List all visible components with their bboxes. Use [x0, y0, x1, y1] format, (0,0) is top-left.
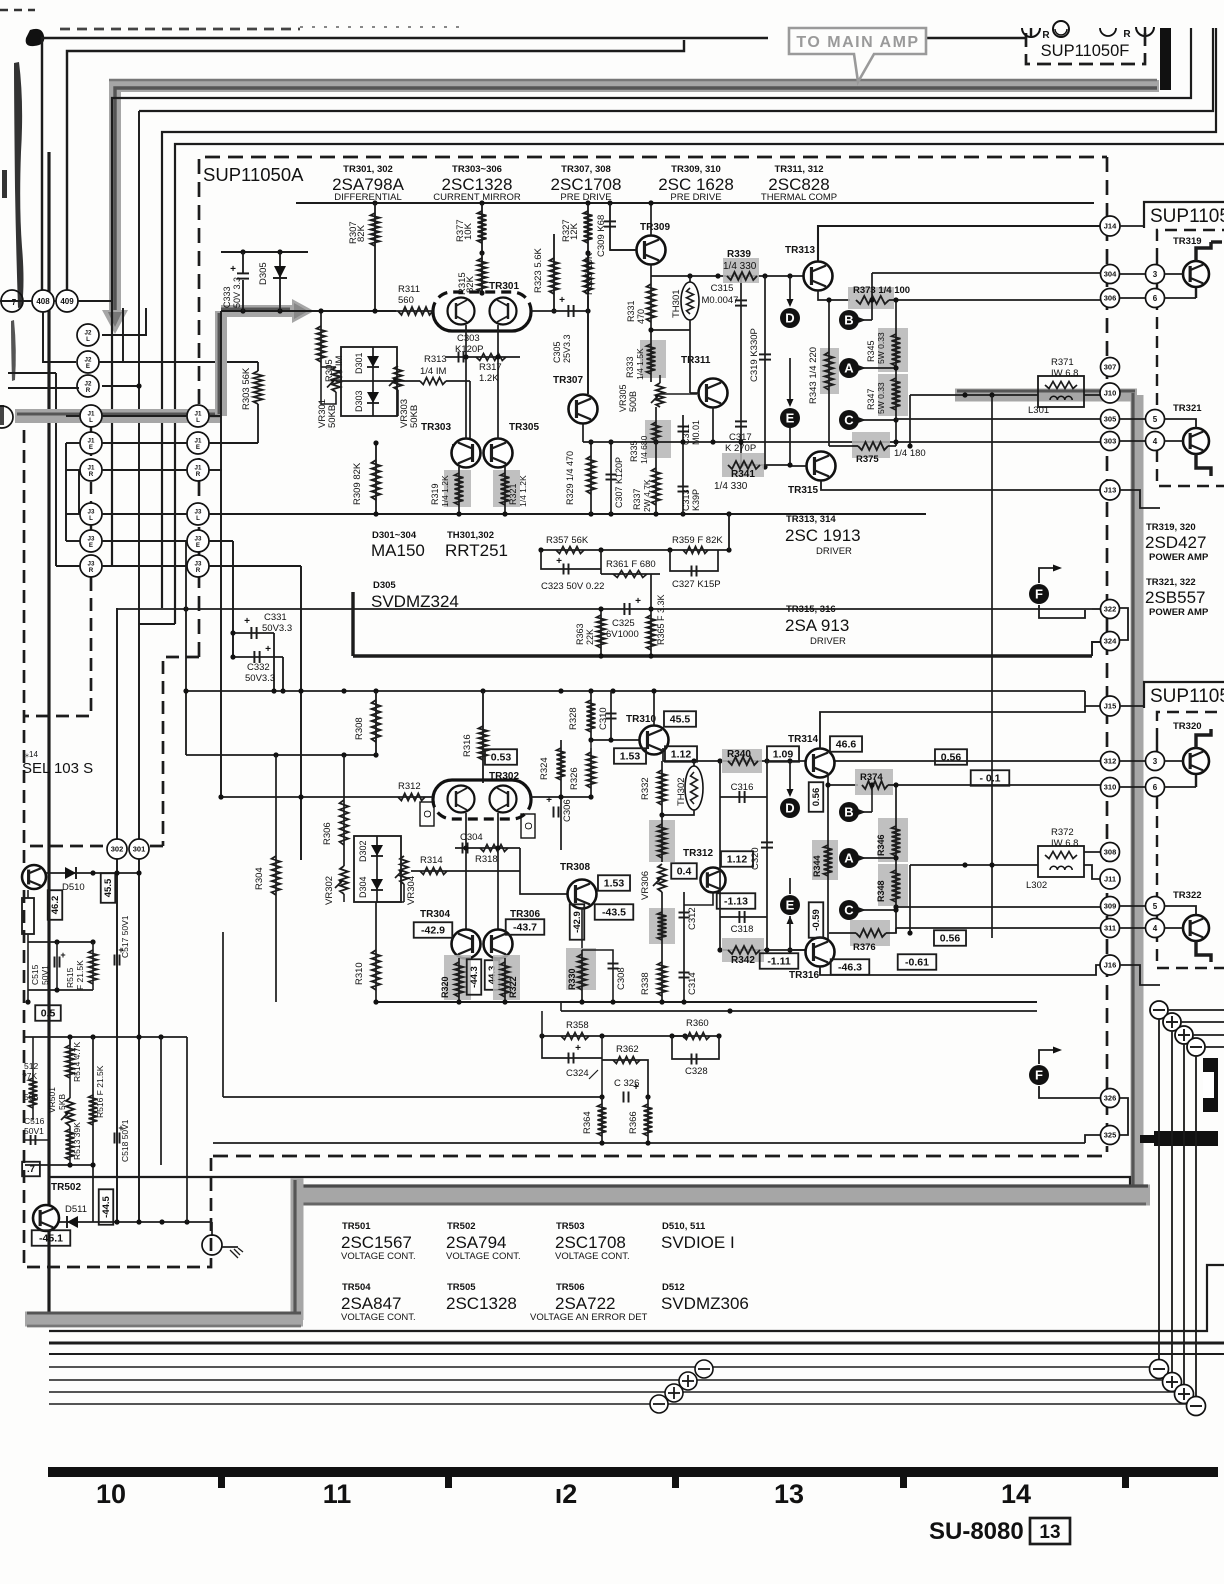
svg-text:+: + — [559, 295, 565, 306]
svg-text:C324: C324 — [566, 1068, 589, 1079]
svg-text:VOLTAGE AN ERROR DET: VOLTAGE AN ERROR DET — [530, 1312, 648, 1323]
svg-text:R: R — [89, 471, 94, 478]
voltage label 1.09 — [767, 746, 799, 762]
svg-text:R360: R360 — [686, 1018, 709, 1029]
resistor R359 F 82K — [683, 547, 708, 554]
thermistor TH302 — [693, 761, 695, 766]
capacitor C316 — [720, 796, 767, 798]
wire: 309 row — [896, 906, 1101, 908]
svg-text:TR309: TR309 — [640, 222, 670, 233]
diode D303 — [372, 380, 374, 416]
connector 409 — [56, 290, 78, 312]
svg-text:⁎14: ⁎14 — [25, 750, 38, 759]
svg-text:R320: R320 — [440, 976, 450, 998]
voltage label 44.3 rotated — [485, 960, 500, 990]
terminal circle minus corner 1 — [1150, 1360, 1169, 1379]
svg-text:TR307: TR307 — [553, 375, 583, 386]
svg-text:C320: C320 — [750, 847, 761, 870]
svg-text:SUP11050F: SUP11050F — [1041, 42, 1130, 60]
voltage label 45.5 — [664, 711, 696, 727]
svg-text:2SC1708: 2SC1708 — [555, 1233, 626, 1252]
connector J2 L — [77, 324, 99, 346]
resistor R325 10K — [587, 253, 589, 394]
highlight band: bottom left vertical gray — [291, 1178, 304, 1320]
resistor R347 5W 0.33 — [878, 374, 908, 416]
svg-text:R318: R318 — [475, 854, 498, 865]
resistor R310 — [375, 902, 377, 1002]
resistor R516 F 21.5K — [92, 1037, 94, 1222]
capacitor C332 50V3.3 — [233, 656, 283, 658]
svg-text:D305: D305 — [373, 580, 396, 591]
diode network box D302 D304 — [354, 836, 401, 902]
voltage label 46.2 rotated — [48, 890, 63, 920]
terminal circle plus corner 3 — [1175, 1385, 1194, 1404]
svg-text:J13: J13 — [1104, 486, 1117, 495]
svg-text:408: 408 — [36, 297, 50, 306]
svg-text:R330: R330 — [567, 968, 577, 990]
svg-text:10: 10 — [96, 1479, 126, 1509]
wire: terminal vertical 3 — [1183, 1044, 1185, 1392]
resistor R366 — [647, 1097, 649, 1143]
wire: bottom frame line y=1354 — [49, 1353, 1224, 1355]
highlight band: right vertical gray band — [1131, 395, 1144, 1198]
svg-text:D302: D302 — [358, 840, 368, 862]
ground terminal circle — [211, 1222, 213, 1236]
regulator pass element box — [22, 898, 34, 934]
wire: speaker line 1 with terminals — [49, 1366, 1159, 1368]
resistor R328 — [590, 691, 592, 740]
node B lower — [839, 802, 859, 822]
resistor R333 1/4 1.5K — [640, 340, 666, 378]
potentiometer VR306 — [658, 864, 666, 892]
wire: left page heavy vertical — [47, 152, 50, 1313]
transistor TR321 — [1183, 428, 1209, 454]
svg-text:R308: R308 — [354, 717, 365, 740]
svg-text:L302: L302 — [1026, 880, 1047, 891]
svg-text:SEL 103 S: SEL 103 S — [22, 760, 93, 777]
svg-text:326: 326 — [1104, 1094, 1117, 1103]
wire: C333/D305 top rail y=252 — [221, 251, 308, 253]
svg-text:1.09: 1.09 — [773, 749, 794, 761]
svg-text:R513 39K: R513 39K — [72, 1122, 82, 1160]
wire: frame line 5 y=132 — [162, 28, 1216, 608]
wire: supply feed vertical to 302 — [116, 608, 118, 1222]
transistor TR312 — [701, 868, 726, 893]
wire: riser x=221 down from input row — [220, 311, 222, 416]
svg-text:R333: R333 — [625, 356, 635, 378]
wire: rail y=1011 — [561, 1010, 1037, 1012]
svg-text:DRIVER: DRIVER — [816, 546, 852, 557]
resistor R332 — [661, 761, 663, 815]
svg-text:VR305: VR305 — [618, 384, 628, 412]
transistor TR316 — [806, 938, 835, 967]
terminal circle plus corner 2 — [1163, 1373, 1182, 1392]
svg-text:R303 56K: R303 56K — [241, 367, 252, 410]
phone jack icon R — [1136, 27, 1154, 36]
ruler tick 2 — [445, 1477, 452, 1488]
resistor R345 5W 0.33 — [878, 328, 908, 372]
wire: J3 E row — [102, 540, 187, 542]
svg-text:R: R — [86, 387, 91, 394]
svg-text:PRE DRIVE: PRE DRIVE — [670, 192, 721, 203]
svg-text:C323 50V 0.22: C323 50V 0.22 — [541, 581, 604, 592]
resistor R337 2W 4.7K — [655, 442, 657, 514]
wire: C515 R515 bottom row — [28, 989, 93, 991]
svg-text:C: C — [844, 413, 854, 428]
svg-text:R345: R345 — [866, 340, 876, 362]
transistor TR308 — [568, 880, 597, 909]
wire: TR302 output row — [530, 796, 591, 798]
svg-text:-1.13: -1.13 — [724, 896, 748, 908]
wire: TR310 base row — [591, 739, 640, 741]
wire: J2 E to R303 — [99, 361, 258, 363]
svg-text:F 21.5K: F 21.5K — [75, 960, 85, 990]
diode D301 — [372, 347, 374, 380]
svg-text:CURRENT MIRROR: CURRENT MIRROR — [433, 192, 521, 203]
ruler tick 4 — [900, 1477, 907, 1488]
resistor R362 — [602, 1060, 648, 1097]
svg-text:K 270P: K 270P — [725, 443, 756, 454]
svg-text:301: 301 — [133, 845, 146, 854]
resistor R514 4.7K — [69, 1040, 71, 1045]
wire: thick rail y=656 to 324 — [353, 654, 1092, 657]
svg-text:R365 F 3.3K: R365 F 3.3K — [656, 594, 666, 645]
resistor R326 — [590, 748, 592, 797]
phone jack icon L — [1022, 28, 1040, 37]
capacitor C515 50V1 — [56, 942, 58, 990]
diode D510 — [46, 872, 93, 874]
diode D304 — [376, 868, 378, 902]
terminal circle minus corner 4 — [1187, 1397, 1206, 1416]
svg-text:DIFFERENTIAL: DIFFERENTIAL — [334, 192, 402, 203]
terminal circle minus mid 1 — [695, 1360, 713, 1378]
svg-text:POWER AMP: POWER AMP — [1149, 607, 1209, 618]
svg-text:82K: 82K — [356, 224, 367, 242]
svg-text:25V3.3: 25V3.3 — [562, 334, 572, 363]
svg-text:-44.3: -44.3 — [469, 966, 480, 988]
resistor R364 — [601, 1097, 603, 1143]
svg-text:DRIVER: DRIVER — [810, 636, 846, 647]
wire: TR309 collector — [650, 203, 652, 235]
svg-text:TR321, 322: TR321, 322 — [1146, 577, 1196, 588]
svg-text:4: 4 — [1153, 437, 1158, 446]
resistor R330 — [566, 948, 596, 990]
wire: 305 row — [896, 418, 1101, 420]
svg-text:-1.11: -1.11 — [767, 956, 791, 968]
svg-text:C304: C304 — [460, 832, 483, 843]
connector J1 E right — [187, 432, 209, 454]
capacitor C314 — [683, 940, 685, 1002]
svg-text:E: E — [196, 542, 200, 549]
svg-text:R: R — [1123, 29, 1131, 40]
svg-text:R373 1/4 100: R373 1/4 100 — [853, 285, 910, 296]
node C lower — [839, 900, 859, 920]
resistor R312 — [221, 796, 433, 798]
scan noise: left margin specks — [2, 170, 7, 198]
transistor TR306 — [484, 930, 513, 959]
svg-text:2W 4.7K: 2W 4.7K — [642, 479, 652, 512]
wire: TR313 emitter to R373 — [818, 291, 850, 300]
parallel R371 1W 6.8 with L301 — [1038, 376, 1084, 407]
svg-text:J14: J14 — [1104, 222, 1117, 231]
svg-text:R304: R304 — [254, 867, 265, 890]
wire: TH302 bottom — [662, 810, 694, 815]
svg-text:IW 6.8: IW 6.8 — [1051, 368, 1078, 379]
svg-text:D512: D512 — [662, 1282, 685, 1293]
potentiometer VR305 500B — [656, 383, 664, 407]
svg-text:TR301: TR301 — [489, 281, 519, 292]
svg-text:D510: D510 — [62, 882, 85, 893]
svg-text:45.5: 45.5 — [103, 878, 114, 897]
wire: jog from x=175 to x=139 at y=624 — [139, 623, 175, 625]
svg-text:1/4 1.2K: 1/4 1.2K — [440, 475, 450, 507]
resistor R334 — [649, 820, 675, 862]
wire: 408 drop to J2 E — [43, 312, 76, 362]
svg-text:1/4 330: 1/4 330 — [714, 481, 748, 492]
connector J3 E left — [80, 530, 102, 552]
wire: R372 L302 to J11 — [910, 864, 1038, 866]
svg-text:TR308: TR308 — [560, 862, 590, 873]
terminal circle plus mid 2 — [679, 1372, 697, 1390]
wire: terminal vertical 2 — [1171, 1031, 1173, 1380]
wire: rail y=755 — [186, 754, 376, 756]
connector 307 — [1101, 358, 1120, 377]
voltage label 0.5 — [35, 1005, 61, 1021]
wire: speaker line 4 with terminals — [49, 1403, 1196, 1405]
wire: 322-324 bracket — [1120, 608, 1128, 640]
svg-text:D301~304: D301~304 — [372, 530, 417, 541]
resistor R342 — [722, 938, 764, 962]
svg-text:TR312: TR312 — [683, 848, 713, 859]
wire: J1 L row — [102, 415, 187, 417]
capacitor C331 50V3.3 — [233, 632, 274, 634]
svg-text:TR315: TR315 — [788, 485, 818, 496]
svg-text:2SA722: 2SA722 — [555, 1294, 616, 1313]
resistor R311 560 — [396, 310, 433, 312]
svg-text:TR313, 314: TR313, 314 — [786, 514, 836, 525]
wire: TR312 emitter — [684, 893, 713, 905]
svg-text:L: L — [196, 417, 200, 424]
resistor R335 1/4 680 — [645, 420, 671, 458]
wire: R358 row — [542, 1035, 685, 1037]
svg-text:311: 311 — [1104, 924, 1116, 933]
svg-text:-45.1: -45.1 — [39, 1233, 63, 1245]
svg-text:MA150: MA150 — [371, 541, 425, 560]
label balloon TO MAIN AMP — [789, 28, 926, 82]
terminal entry circle plus 2 — [1163, 1013, 1181, 1031]
wire: J14 to label box — [1120, 225, 1144, 227]
potentiometer VR301 50KB — [332, 367, 340, 392]
svg-text:TR301, 302: TR301, 302 — [343, 164, 393, 175]
bias label 0 right — [521, 814, 535, 838]
svg-text:2SC 1913: 2SC 1913 — [785, 526, 861, 545]
transistor TR315 — [807, 452, 836, 481]
pin 3 upper — [1146, 265, 1165, 284]
node B upper — [839, 310, 859, 330]
connector J2 R — [77, 375, 99, 397]
transistor TR304 — [452, 930, 481, 959]
svg-text:12K: 12K — [569, 222, 580, 240]
capacitor C309 K68 — [610, 203, 636, 250]
connector J10 — [1100, 383, 1120, 403]
voltage label -0.61 — [898, 954, 937, 970]
svg-text:82K: 82K — [465, 275, 476, 293]
svg-text:2SA 913: 2SA 913 — [785, 616, 849, 635]
voltage label -1.11 — [760, 953, 799, 969]
svg-text:500B: 500B — [628, 391, 638, 412]
svg-text:512: 512 — [24, 1061, 38, 1071]
capacitor C311 M0.01 — [682, 415, 684, 442]
svg-text:R364: R364 — [582, 1111, 593, 1134]
wire: TR315 emitter to J13 — [821, 481, 1101, 490]
svg-text:-44.5: -44.5 — [101, 1195, 112, 1217]
svg-text:R357 56K: R357 56K — [546, 535, 589, 546]
jack icon circle 2 — [1100, 28, 1116, 36]
svg-text:6: 6 — [1153, 294, 1158, 303]
svg-text:11: 11 — [323, 1479, 352, 1509]
thick black riser top right — [1160, 28, 1171, 90]
svg-text:E: E — [196, 444, 200, 451]
wire: x=520 drop to TR308 base — [520, 848, 568, 894]
svg-text:50V1: 50V1 — [24, 1126, 44, 1136]
svg-text:R306: R306 — [322, 822, 333, 845]
wire: TR309 emitter row y=276 — [650, 265, 652, 276]
node A upper — [839, 358, 859, 378]
wire: bias row y=1165 — [25, 1164, 93, 1166]
voltage label -1.13 — [717, 893, 756, 909]
voltage label 1.53 — [614, 748, 646, 764]
highlight band down arrowhead — [102, 310, 128, 334]
svg-text:R337: R337 — [632, 488, 642, 510]
connector 301 — [129, 839, 149, 859]
wire: vertical x=767 — [766, 761, 768, 950]
wire: TR302 emitters down — [465, 813, 467, 930]
svg-text:C327 K15P: C327 K15P — [672, 579, 721, 590]
svg-text:J10: J10 — [1104, 389, 1117, 398]
wire: to TR303 base — [452, 381, 470, 445]
resistor R307 82K — [374, 203, 376, 311]
resistor R358 — [561, 1033, 589, 1040]
connector 306 — [1101, 289, 1120, 308]
voltage label -0.1 — [971, 770, 1010, 786]
capacitor C319 K330P — [764, 276, 766, 467]
ruler tick 3 — [672, 1477, 679, 1488]
wire: rail drop to J14 wire — [818, 226, 1101, 261]
svg-text:R335: R335 — [629, 440, 639, 462]
svg-text:C518 50V1: C518 50V1 — [120, 1119, 130, 1162]
svg-text:F: F — [1035, 587, 1043, 602]
wire: 407-408-409 row — [0, 300, 32, 302]
svg-text:C305: C305 — [552, 341, 562, 363]
ruler tick 5 — [1122, 1477, 1129, 1488]
bias label 0 left — [420, 802, 434, 826]
diode network box D301 D303 — [341, 347, 397, 416]
highlight band: input riser gray — [215, 311, 227, 416]
wire: outer frame line top y=38 — [42, 38, 768, 292]
svg-text:0.56: 0.56 — [941, 752, 962, 764]
connector J13 — [1100, 480, 1120, 500]
terminal entry circle minus 4 — [1187, 1038, 1205, 1056]
board label box SUP1105 upper — [1144, 202, 1224, 228]
highlight band core line — [115, 88, 1157, 315]
svg-text:R314: R314 — [420, 855, 443, 866]
capacitor C304 — [455, 847, 520, 849]
resistor R515 F21.5K — [92, 942, 94, 990]
svg-text:R311: R311 — [398, 284, 420, 295]
svg-text:0.4: 0.4 — [677, 866, 692, 878]
wire: D510 row to columns — [93, 872, 139, 874]
svg-text:R313: R313 — [424, 354, 447, 365]
svg-text:1.12: 1.12 — [727, 854, 748, 866]
svg-text:SUP11050A: SUP11050A — [203, 164, 304, 185]
svg-text:R: R — [89, 567, 94, 574]
svg-text:470: 470 — [636, 309, 646, 324]
svg-text:E: E — [89, 444, 93, 451]
connector J3 E right — [187, 530, 209, 552]
wire: heavy corner riser x=353 — [351, 592, 354, 656]
voltage label -44.5 rotated — [99, 1189, 114, 1224]
svg-text:SVDMZ306: SVDMZ306 — [661, 1294, 749, 1313]
resistor R322 — [493, 955, 520, 1000]
connector J3 R left — [80, 555, 102, 577]
wire: rail y=1097 — [223, 1096, 602, 1098]
svg-text:RRT251: RRT251 — [445, 541, 508, 560]
highlight band: J10 row horizontal gray — [955, 389, 1137, 402]
svg-text:J16: J16 — [1104, 961, 1117, 970]
capacitor C308 — [582, 950, 613, 1002]
svg-text:E: E — [786, 411, 795, 426]
svg-text:D: D — [785, 311, 794, 326]
wire: J15 to label box — [1120, 705, 1144, 707]
transistor TR303 — [452, 439, 481, 468]
transistor TR314 — [806, 749, 835, 778]
svg-text:6: 6 — [1153, 783, 1158, 792]
svg-text:R358: R358 — [566, 1020, 589, 1031]
svg-text:R343 1/4 220: R343 1/4 220 — [808, 347, 819, 404]
svg-text:R515: R515 — [65, 967, 75, 988]
svg-text:VR304: VR304 — [406, 876, 417, 905]
resistor R344 1/4 220 — [812, 840, 838, 880]
board outline SEL103S dashed segment — [25, 578, 91, 716]
svg-text:TR502: TR502 — [447, 1221, 476, 1232]
transistor TR320 — [1183, 748, 1209, 774]
svg-text:7: 7 — [12, 298, 17, 307]
svg-text:R325 10K: R325 10K — [584, 252, 595, 295]
resistor R324 — [560, 740, 562, 797]
capacitor C518 50V1 — [114, 1133, 116, 1144]
wire: vertical x=720 — [719, 761, 721, 950]
svg-text:C316: C316 — [731, 782, 754, 793]
svg-text:TR313: TR313 — [785, 245, 815, 256]
connector 324 — [1101, 632, 1120, 651]
svg-text:TR311: TR311 — [681, 355, 711, 366]
svg-text:+: + — [556, 556, 562, 567]
svg-text:5W 0.33: 5W 0.33 — [876, 382, 886, 414]
dual transistor TR301 2SA798A — [433, 292, 531, 312]
svg-text:C319 K330P: C319 K330P — [749, 328, 760, 382]
pin 3 lower — [1146, 752, 1165, 771]
svg-text:.7: .7 — [27, 1164, 35, 1175]
pin 5 upper — [1146, 410, 1165, 429]
svg-text:R375: R375 — [856, 454, 879, 465]
resistor R343 1/4 220 — [820, 348, 839, 394]
svg-text:TR321: TR321 — [1173, 403, 1202, 414]
svg-text:1/4 1.2K: 1/4 1.2K — [518, 475, 528, 507]
connector 408 — [32, 290, 54, 312]
svg-text:1/4 180: 1/4 180 — [894, 448, 926, 459]
connector 309 — [1101, 897, 1120, 916]
voltage label 46.6 — [830, 736, 862, 752]
